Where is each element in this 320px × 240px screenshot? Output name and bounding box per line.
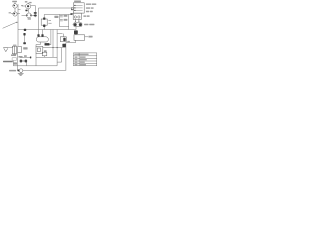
box-in-box inner [37,48,40,51]
table row1 [75,57,78,58]
wire box3 bottom stub [75,40,77,42]
wire T2 base [22,5,26,7]
label 26 above T1 [12,1,17,3]
junction dot y47.6 x53 [53,47,54,48]
wire cap rail x59.3 [59,15,68,27]
label left of T3 [9,12,11,13]
wire left label vertical [12,61,14,66]
box2 contactor [73,13,81,19]
wire switch drop x24.5 [24,36,26,44]
battery box [73,3,84,13]
wire T2 top stub [27,3,29,4]
label under T4 [28,18,31,19]
fuse box bottom dash [13,54,16,55]
wire motor left stub [72,24,75,26]
wire horizontal y42.6 [66,42,76,44]
box2 circle b [78,16,80,18]
junction dot y47.6 x57 [57,47,58,48]
wire top horizontal y8 [39,7,72,9]
diode left mark [18,70,20,72]
cap label 1 [64,15,68,17]
fuse box top dash [13,45,16,46]
wire T2 emitter down [27,9,29,13]
wire vertical x35.5 [35,6,37,18]
diode circle [19,69,23,73]
label near small box right [44,50,47,52]
battery cell lines [75,5,83,10]
table row4 [75,64,78,65]
motor body [74,23,82,27]
dark label bar near oval [45,43,50,45]
wire vertical x50.9 [48,30,51,45]
small marks below left box [14,62,17,64]
wire vertical x65.9 [65,43,67,71]
wire T4 base left [22,14,27,16]
wire horizontal y14.5 [44,14,72,16]
dash right of relay [48,21,51,24]
transistor T1 [13,4,17,8]
wire long y70.6 [23,70,66,72]
y57.3 end tick [30,57,31,59]
wire vertical x53 [52,30,54,58]
switch pivot dot [16,22,17,23]
wire gauge stub [75,27,77,30]
label 46 right of fuse [23,47,27,49]
wire T1-T3 connector [14,8,16,12]
fuse box A [12,46,16,54]
transistor T2 [26,4,31,9]
wire vertical x38.5 [38,8,40,37]
box2 right text [83,15,86,17]
label tick left of T2 [21,5,23,6]
battery terminal dot [71,9,72,10]
switch drop end tick [23,42,26,44]
junction blob switch [24,29,26,31]
right text line 2 [86,7,90,8]
T2 inner dot [27,5,29,7]
wire small box stub [44,56,46,58]
switch lower dot [23,33,25,36]
transistor T3 [13,12,17,16]
left text row [3,61,13,63]
wire relay bottom stub [43,25,45,29]
oval top terminal a [37,34,39,37]
coil oval [36,37,48,42]
ground 2 under diode [18,72,24,75]
small left box [12,58,16,61]
cluster blob [63,38,65,41]
motor circle b dark [79,23,82,26]
box-in-box outer [36,46,43,53]
box3 [74,35,85,41]
table row3 [75,62,78,63]
wire box3 right stub [85,36,88,38]
battery row dashes [74,5,75,6]
motor circle a dark [74,23,77,26]
wire ground1 lead [8,47,13,49]
fuse box B [18,47,22,53]
capacitor plates 1 [60,16,63,17]
motor right text [84,24,88,26]
small component box lower [42,52,47,56]
oval top terminal b [41,34,43,37]
wire box2 stubs [75,19,79,21]
wire horizontal y47.6 [43,47,66,49]
wire T2 collector right [31,5,36,7]
wire long y65.8 [13,65,57,67]
relay box K1 [41,19,47,25]
label 24 left column [11,54,16,56]
wire left bus lower [16,53,18,66]
wire T4 right to x35.5 [31,14,35,16]
label above T2 [25,1,28,2]
wire resistor drop x26.5 [26,61,28,66]
wire long y57.3 [20,56,57,58]
legend table [73,53,96,66]
resistor component bottom left [20,60,27,62]
wire stub tick y9.5 [18,9,21,11]
T4 inner dots [26,15,27,16]
capacitor plates 2 [60,20,63,21]
T junction x35.5 component lower [34,15,37,17]
gauge blob [74,30,78,34]
ground 1 [3,48,8,52]
wire vertical x68.7 [68,15,70,30]
wire diagonal switch arm [3,22,17,28]
label 20 top of resistor [18,56,22,58]
cap label 2 [64,19,68,21]
right text line 3 [86,11,89,12]
T junction x35.5 component upper [34,12,37,14]
wire relay top stub [43,15,45,20]
relay top nub [43,18,45,20]
T3 inner dot [14,13,16,15]
wire nested x61.5 [57,48,62,63]
T2 bottom smudge [25,10,27,12]
relay bottom nub [43,25,45,28]
wire vertical left bus [17,4,19,46]
component blob near x65.9 [62,44,66,47]
wire battery lower stub [71,13,73,14]
wire vertical x57 [56,30,58,66]
label 44 above wire [67,41,70,42]
box2 circle a [74,16,76,18]
transistor T4 [26,13,31,18]
wire oval lead x42.5 [42,30,44,37]
wire T3 right stub [17,13,20,15]
wire cluster stub [57,34,63,37]
bottom left text [9,70,16,72]
cluster component box [60,37,66,42]
table header text [74,54,88,55]
y14.5 end tick [70,13,72,15]
label 36 box [54,16,58,18]
wire T1 top stub [14,2,16,3]
T1 inner dot [14,5,16,7]
wire oval bottom lead [36,42,41,46]
wire box left drop [35,53,37,65]
right text line 1 [86,4,91,5]
box2 stub dots [75,21,76,22]
wire diode left lead [17,66,19,71]
battery terminal [71,8,73,10]
wire main bus y29.5 [18,29,76,31]
battery top label [74,1,81,3]
table row2 [75,59,78,60]
label 54a [88,36,92,38]
wire T1 base lead [11,13,13,15]
